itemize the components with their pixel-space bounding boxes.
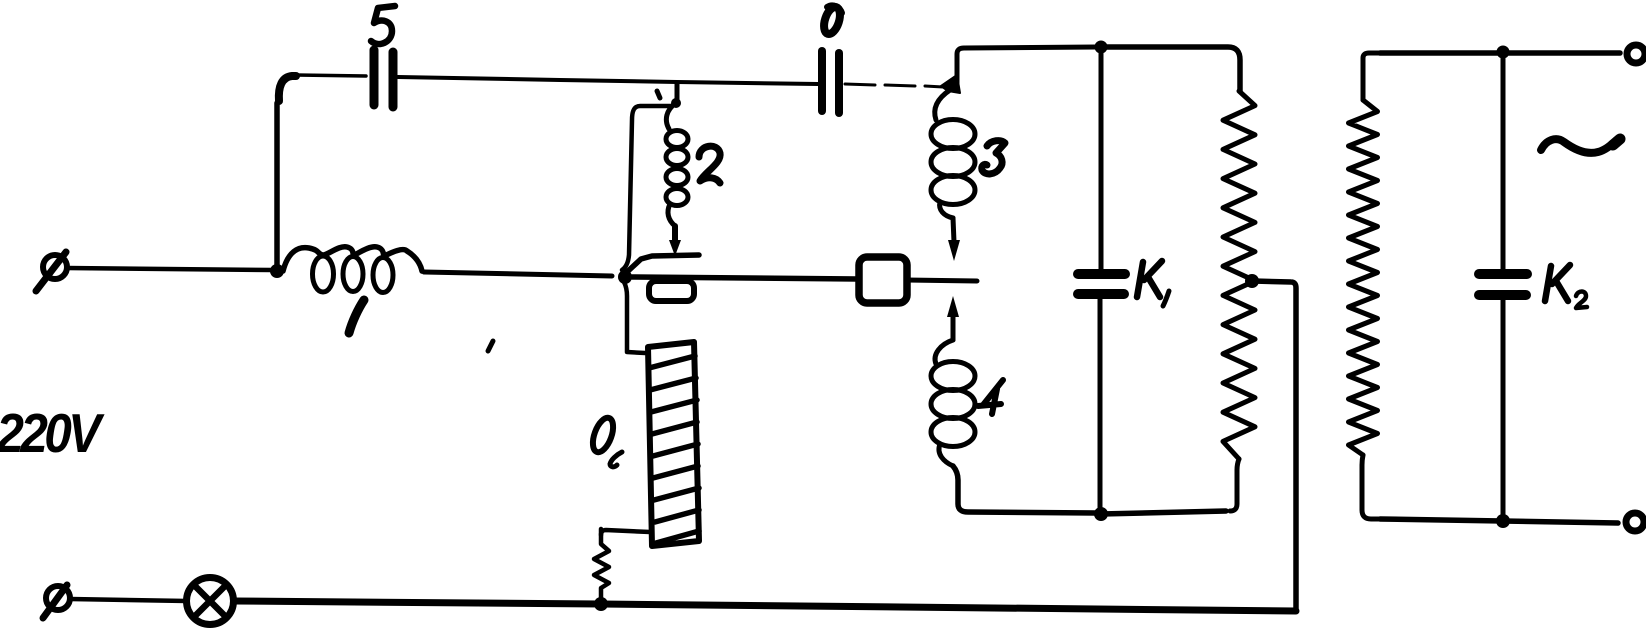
wire C6 to L3 (faint) bbox=[845, 84, 943, 87]
interrupter box bbox=[859, 257, 907, 303]
terminal T2 (mains input bottom) bbox=[43, 585, 70, 618]
arrow from L2 to anode plate bbox=[672, 226, 678, 244]
resistor r (small zigzag) bbox=[594, 529, 609, 602]
wire T2 to lamp bbox=[70, 599, 187, 601]
arrow L3 bottom bbox=[953, 218, 954, 242]
terminal T4 (output bottom) bbox=[1626, 513, 1644, 531]
resistor R1 (autotransformer winding) bbox=[1223, 91, 1255, 459]
arrow L4 top bbox=[947, 296, 959, 317]
label 5 bbox=[371, 6, 395, 44]
capacitor K1 leads bbox=[1099, 47, 1104, 269]
wire C5 to grid node bbox=[398, 77, 818, 84]
main electrode wire to interrupter box bbox=[632, 277, 857, 279]
coil L2 loops bbox=[666, 103, 676, 129]
wire riser node A to C5 bbox=[274, 103, 280, 271]
stray tick mark bbox=[488, 341, 493, 351]
top rail to resistor R1 bbox=[1101, 47, 1240, 91]
label 2 bbox=[699, 146, 720, 183]
node E (junction dot K2 top) bbox=[1497, 46, 1510, 59]
grid bypass wire bbox=[622, 106, 672, 270]
bottom rail to R1 bottom bbox=[1101, 511, 1226, 514]
cathode junction dot bbox=[618, 270, 632, 284]
capacitor K2 plates bbox=[1479, 274, 1527, 295]
coil L3 bbox=[935, 90, 950, 120]
wire T1 to node A bbox=[67, 268, 272, 270]
wire to capacitor C5 bbox=[296, 75, 366, 76]
inductor L1 bbox=[283, 247, 422, 271]
label C6 bbox=[821, 5, 843, 36]
lamp HL1 bbox=[187, 578, 234, 625]
terminal T3 (output top) bbox=[1627, 45, 1645, 63]
anode contact plate bbox=[627, 255, 699, 272]
node A (junction dot) bbox=[270, 264, 284, 278]
choke Dr (hatched box) bbox=[648, 342, 699, 546]
label 220V bbox=[0, 404, 105, 465]
wire box to gap bbox=[906, 280, 977, 281]
label K1 bbox=[1137, 261, 1169, 306]
secondary bottom rail bbox=[1380, 519, 1618, 523]
secondary top rail bbox=[1380, 50, 1620, 56]
wire L4 bottom rail bbox=[953, 466, 1096, 513]
capacitor K2 leads bbox=[1501, 52, 1506, 269]
coil L4 bbox=[935, 340, 953, 364]
label 3 bbox=[982, 141, 1005, 174]
label 1 bbox=[349, 300, 364, 333]
transformer secondary winding R2 bbox=[1349, 100, 1378, 455]
wire cathode down to choke bbox=[624, 282, 645, 353]
capacitor C5 plates bbox=[374, 50, 393, 107]
R2 top riser bbox=[1363, 53, 1380, 100]
terminal T1 (mains input top) bbox=[36, 252, 67, 291]
node C (junction dot K1 top) bbox=[1095, 41, 1108, 54]
lower contact cup bbox=[649, 281, 694, 301]
label K2 bbox=[1545, 265, 1587, 308]
capacitor K1 plates bbox=[1078, 274, 1125, 294]
tick mark at grid node bbox=[657, 91, 660, 98]
AC tilde symbol bbox=[1541, 139, 1618, 153]
R1 bottom hook bbox=[1230, 459, 1239, 511]
node F (junction dot K2 bottom) bbox=[1496, 514, 1510, 528]
label 4 bbox=[978, 380, 1003, 414]
coil L2 (tickler) top connection bbox=[675, 83, 680, 100]
tap junction dot on R1 bbox=[1245, 274, 1259, 288]
wire L3 riser to top rail bbox=[957, 47, 1096, 86]
R2 bottom hook bbox=[1362, 455, 1380, 519]
svg-text:220V: 220V bbox=[0, 404, 105, 465]
capacitor C6 plates bbox=[822, 51, 839, 113]
wire L1 to spark gap electrode bbox=[424, 272, 612, 276]
node D (junction dot K1 bottom) bbox=[1094, 507, 1108, 521]
bottom return wire bbox=[234, 601, 1296, 611]
node B (junction dot bottom) bbox=[594, 597, 608, 611]
label Dr bbox=[589, 415, 622, 467]
tap wire down to bottom return bbox=[1253, 281, 1296, 611]
wire choke bottom to resistor bbox=[601, 530, 650, 535]
arrow tick at L3 top bbox=[941, 75, 960, 93]
